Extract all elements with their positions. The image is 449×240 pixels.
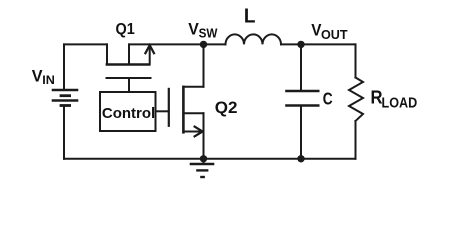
node VOUT junction dot bbox=[297, 41, 304, 48]
svg-text:IN: IN bbox=[42, 73, 55, 87]
label VOUT bbox=[311, 21, 347, 42]
label VIN bbox=[32, 66, 55, 87]
wire RLOAD top lead bbox=[355, 44, 357, 77]
wire Q2 drain to VSW rail bbox=[203, 44, 205, 86]
wire control to Q2 gate bbox=[156, 110, 169, 112]
svg-text:SW: SW bbox=[199, 26, 218, 41]
wire left vertical from VIN top bbox=[63, 44, 65, 90]
svg-text:Control: Control bbox=[102, 105, 155, 122]
svg-text:Q1: Q1 bbox=[116, 20, 136, 38]
wire left vertical to bottom rail bbox=[63, 106, 65, 159]
wire top-left rail bbox=[64, 43, 107, 45]
svg-text:Q2: Q2 bbox=[215, 98, 238, 117]
label L bbox=[244, 5, 256, 28]
resistor RLOAD bbox=[349, 78, 363, 122]
battery VIN bbox=[52, 90, 79, 106]
wire VOUT to capacitor bbox=[300, 44, 302, 91]
ground bbox=[190, 159, 215, 177]
label RLOAD bbox=[371, 87, 418, 111]
transistor Q2 bbox=[169, 86, 204, 137]
transistor Q1 bbox=[106, 44, 154, 92]
capacitor C bbox=[285, 91, 319, 106]
inductor L bbox=[226, 34, 282, 44]
svg-text:V: V bbox=[32, 66, 43, 85]
svg-text:V: V bbox=[188, 20, 199, 39]
svg-text:L: L bbox=[244, 5, 256, 28]
node VSW junction dot bbox=[200, 41, 207, 48]
label VSW bbox=[188, 20, 217, 41]
wire RLOAD bottom lead bbox=[355, 121, 357, 159]
wire top rail middle bbox=[129, 43, 226, 45]
wire top rail right bbox=[281, 43, 356, 45]
label Q1 bbox=[116, 20, 136, 38]
label C bbox=[323, 90, 333, 109]
label Q2 bbox=[215, 98, 238, 117]
control block U1 bbox=[100, 92, 156, 131]
wire Q2 source to ground rail bbox=[203, 113, 205, 159]
node ground junction dot bbox=[200, 155, 207, 162]
label Control bbox=[102, 105, 155, 122]
node capacitor bottom junction dot bbox=[297, 155, 304, 162]
svg-text:OUT: OUT bbox=[321, 27, 348, 42]
svg-text:C: C bbox=[323, 90, 333, 109]
wire bottom rail bbox=[64, 158, 356, 160]
svg-text:LOAD: LOAD bbox=[382, 94, 418, 111]
wire capacitor to bottom rail bbox=[300, 106, 302, 159]
